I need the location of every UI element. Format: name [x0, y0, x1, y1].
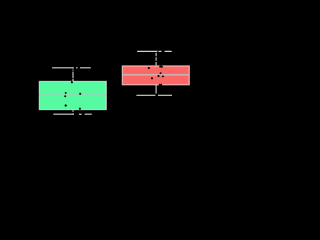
green boxplot: upper whisker	[72, 70, 74, 82]
red boxplot: upper whisker	[155, 53, 157, 66]
green boxplot: bottom cap	[53, 113, 92, 115]
green boxplot: lower whisker	[72, 110, 74, 114]
green point 6 (bottom edge)	[79, 108, 81, 110]
red point 9 (bottom edge)	[160, 84, 162, 86]
red point 8 (bottom edge)	[159, 84, 161, 86]
green point 1 (top edge)	[71, 81, 73, 83]
red point 6	[162, 75, 164, 77]
red boxplot: top cap	[137, 50, 172, 52]
red point 2 (top edge)	[159, 65, 161, 67]
red point 4	[160, 72, 162, 74]
red point 5	[157, 75, 159, 77]
red boxplot: median	[122, 74, 189, 76]
red boxplot: box	[122, 66, 189, 85]
green boxplot: top cap	[52, 67, 91, 69]
green point 3	[79, 93, 81, 95]
green point 5	[65, 104, 67, 106]
green boxplot: whisker-cap joint	[72, 67, 74, 68]
green boxplot: box	[39, 81, 106, 109]
red point 3 (top edge)	[161, 66, 163, 68]
red boxplot: lower whisker	[155, 85, 157, 94]
red point 7	[151, 77, 153, 79]
green boxplot: median	[39, 94, 106, 96]
red point 1	[148, 67, 150, 69]
red boxplot: bottom cap	[136, 94, 172, 96]
green point 2	[65, 92, 67, 94]
green point 4	[64, 95, 66, 97]
